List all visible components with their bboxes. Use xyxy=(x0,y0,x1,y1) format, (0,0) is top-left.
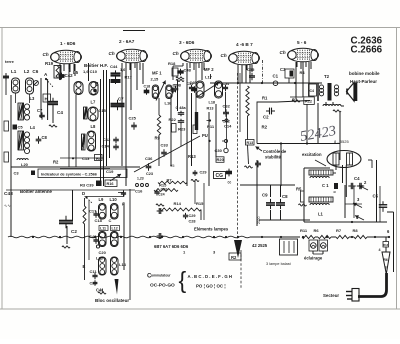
capacitor antenna input xyxy=(3,74,9,81)
label C19 xyxy=(106,169,114,174)
svg-text:C28: C28 xyxy=(189,220,196,224)
svg-text:terre: terre xyxy=(5,59,15,64)
svg-text:R9: R9 xyxy=(155,136,161,141)
capacitor C38 xyxy=(173,83,182,93)
svg-text:MF 1: MF 1 xyxy=(152,71,162,76)
wire AVC return xyxy=(6,189,135,191)
svg-text:R4: R4 xyxy=(300,70,306,75)
svg-text:L17: L17 xyxy=(205,75,213,80)
svg-text:L14: L14 xyxy=(119,262,127,267)
potentiometer mains dropper xyxy=(382,252,390,274)
svg-text:C6: C6 xyxy=(32,69,38,74)
capacitor C4 big xyxy=(48,98,63,127)
label elements lampes xyxy=(194,227,229,232)
resistor R18 box xyxy=(383,242,389,248)
label Boitier HF xyxy=(84,63,108,68)
svg-text:bobine mobile: bobine mobile xyxy=(349,71,380,76)
labels R11 C14 xyxy=(207,123,232,129)
svg-text:éclairage: éclairage xyxy=(304,256,323,261)
wire electrolytic leads xyxy=(240,185,310,220)
lamp dial 2 xyxy=(319,240,328,251)
svg-text:L9: L9 xyxy=(99,197,105,202)
capacitor C11 xyxy=(83,264,98,279)
capacitor C25 xyxy=(129,116,137,130)
wire filament bus xyxy=(8,236,250,238)
label boitier antenne xyxy=(4,189,53,197)
wire coil common xyxy=(60,157,104,159)
resistor R9 xyxy=(155,115,161,166)
svg-text:L10: L10 xyxy=(110,197,118,202)
label terre xyxy=(5,59,15,64)
capacitor C34 xyxy=(223,82,230,112)
capacitor C48b xyxy=(177,68,191,76)
svg-text:C18: C18 xyxy=(95,218,103,223)
capacitor C26b xyxy=(171,84,179,94)
capacitor C26 xyxy=(154,188,167,196)
choke L1 field xyxy=(309,197,333,217)
svg-text:3 lampe balast: 3 lampe balast xyxy=(266,262,292,266)
capacitor CG boxed xyxy=(214,172,226,180)
capacitor C3 left xyxy=(14,171,36,176)
svg-text:L12: L12 xyxy=(112,227,118,231)
inductor L5 xyxy=(74,82,83,168)
label Haut-Parleur xyxy=(349,71,380,84)
choke CH1 filter xyxy=(309,170,333,188)
svg-text:C7: C7 xyxy=(37,108,43,113)
label PU xyxy=(202,133,210,142)
coil speaker field winding xyxy=(323,105,341,106)
wire psu right rail xyxy=(368,160,380,222)
capacitor C48a xyxy=(176,106,187,124)
inductor L1 xyxy=(12,78,20,93)
wire heater leads tube V2 6A7 xyxy=(126,63,140,70)
capacitor C5 block xyxy=(13,125,24,130)
switch contact S2 xyxy=(208,140,227,143)
lamp dial 1 xyxy=(309,240,318,251)
label switch sections ABCDEFGH xyxy=(188,274,232,279)
capacitor C27 dark xyxy=(226,169,232,185)
wire tube V3 leads xyxy=(173,63,202,80)
capacitor C36 xyxy=(145,156,153,171)
wire oscillator frame xyxy=(85,189,131,300)
svg-text:L11: L11 xyxy=(100,227,106,231)
wire grid leads xyxy=(41,78,48,120)
svg-text:L2: L2 xyxy=(24,69,30,74)
svg-text:R2: R2 xyxy=(231,255,237,260)
divider dash-dot grid line xyxy=(262,60,264,83)
svg-text:C 1: C 1 xyxy=(322,183,329,188)
terminal 6 xyxy=(387,229,390,234)
svg-text:C2: C2 xyxy=(71,229,77,234)
resistor R20 xyxy=(216,157,225,163)
capacitor C8 xyxy=(276,194,288,209)
wire mains cable xyxy=(358,273,387,297)
wire heater leads tube V3 6D6 xyxy=(190,63,204,70)
resistor R19 xyxy=(45,61,61,80)
capacitor C41 pointer xyxy=(96,279,119,295)
resistor R5 xyxy=(296,187,307,207)
switch contact 1 xyxy=(355,215,364,220)
node B xyxy=(95,82,99,88)
svg-text:R1: R1 xyxy=(262,96,268,101)
wire RF bundle xyxy=(101,70,110,186)
svg-text:PU: PU xyxy=(202,133,208,138)
label indicateur de syntonie xyxy=(38,169,127,178)
wire osc top xyxy=(118,193,124,197)
label 8-3525 xyxy=(334,139,349,144)
svg-text:Ch: Ch xyxy=(280,50,286,55)
tube V5 42 xyxy=(280,40,319,62)
svg-text:R11: R11 xyxy=(207,124,215,129)
svg-text:R13: R13 xyxy=(207,107,214,111)
svg-text:C15: C15 xyxy=(99,108,107,113)
node D xyxy=(82,191,92,203)
label C20 xyxy=(99,250,107,255)
wire MF2 bundle xyxy=(187,63,196,186)
transformer L11 L12 xyxy=(99,232,119,247)
label C13 resistor R4 xyxy=(72,155,102,162)
svg-text:R3 C39: R3 C39 xyxy=(80,183,94,188)
switch contact osc xyxy=(96,245,99,248)
capacitor C42 xyxy=(59,73,74,80)
svg-text:L3: L3 xyxy=(30,96,36,101)
tube ballast xyxy=(280,239,298,255)
labels tube heaters xyxy=(154,244,216,255)
node bus end xyxy=(388,236,390,238)
svg-text:C48: C48 xyxy=(184,68,192,73)
svg-text:R8: R8 xyxy=(353,228,359,233)
label MF2 xyxy=(204,67,214,80)
capacitor osc b xyxy=(157,233,164,239)
svg-text:C9: C9 xyxy=(262,193,268,198)
wire tube V5 leads xyxy=(296,62,309,96)
svg-text:excitation: excitation xyxy=(302,152,322,157)
resistor R24 line xyxy=(154,189,178,197)
wire psu to mains xyxy=(387,212,394,272)
inductor L2 xyxy=(26,78,34,94)
capacitor C18 dark xyxy=(144,85,151,95)
capacitor C9 xyxy=(262,193,275,210)
inductor L18 core xyxy=(195,112,198,130)
label R15 xyxy=(159,183,167,188)
wire L16 C48a leads xyxy=(171,80,181,166)
wire heater leads tube V4 6B7 xyxy=(238,65,252,72)
label PO GO OC xyxy=(196,284,226,289)
svg-text:2000: 2000 xyxy=(257,216,261,224)
svg-text:R12: R12 xyxy=(305,100,312,104)
wire heater leads tube V1 6D6 xyxy=(60,64,74,71)
wire tube V2 leads xyxy=(122,63,143,186)
inductor L7 xyxy=(84,100,99,122)
svg-text:MF 2: MF 2 xyxy=(204,67,214,72)
svg-text:R19: R19 xyxy=(45,61,54,66)
svg-text:40: 40 xyxy=(333,190,337,194)
svg-text:L8: L8 xyxy=(91,124,97,129)
svg-text:D: D xyxy=(82,191,85,196)
wire plate supply bus xyxy=(210,82,322,84)
ground antenna xyxy=(4,203,11,208)
svg-text:C7: C7 xyxy=(118,97,124,102)
svg-text:C48: C48 xyxy=(4,191,13,197)
node H xyxy=(43,94,51,102)
capacitor C17b dark xyxy=(111,78,121,84)
svg-text:C.2666: C.2666 xyxy=(351,45,383,56)
svg-text:R22: R22 xyxy=(169,117,177,122)
svg-text:C13: C13 xyxy=(82,156,90,161)
svg-text:1,6 C10: 1,6 C10 xyxy=(83,69,98,74)
svg-text:L20: L20 xyxy=(21,162,29,167)
svg-text:8 - 3525: 8 - 3525 xyxy=(334,139,349,144)
svg-text:C29: C29 xyxy=(200,171,207,175)
svg-text:4: 4 xyxy=(379,248,381,252)
svg-text:C20: C20 xyxy=(99,250,107,255)
capacitor C21 xyxy=(90,280,98,286)
wire output stage xyxy=(290,83,303,97)
label OC-PO-GO xyxy=(150,283,175,289)
labels L11 L12 boxed xyxy=(99,226,120,231)
resistor R21 line xyxy=(158,178,199,205)
svg-text:C14: C14 xyxy=(224,123,232,128)
trimmer C1 xyxy=(273,74,279,86)
label commutateur xyxy=(147,273,171,280)
svg-text:2,15: 2,15 xyxy=(151,77,160,82)
svg-text:1 - 6D6: 1 - 6D6 xyxy=(60,41,76,46)
svg-text:R16: R16 xyxy=(107,182,114,186)
wire psu left rail xyxy=(304,168,330,222)
label 95 xyxy=(170,163,175,168)
svg-text:L1: L1 xyxy=(318,212,324,217)
svg-text:{: { xyxy=(179,267,187,293)
capacitor C29 xyxy=(183,213,196,224)
svg-text:C‌4: C‌4 xyxy=(57,110,63,115)
svg-text:1,23: 1,23 xyxy=(137,177,144,181)
svg-text:E: E xyxy=(83,264,86,269)
svg-text:66: 66 xyxy=(228,181,232,185)
svg-text:R20: R20 xyxy=(217,157,225,162)
transformer L9 L10 xyxy=(99,204,119,220)
capacitor C2 xyxy=(59,190,77,248)
terminal 4 xyxy=(379,248,381,252)
potentiometer R2 xyxy=(229,240,242,260)
svg-text:Contrôle de: Contrôle de xyxy=(263,149,287,154)
capacitor C43 xyxy=(89,234,99,244)
label excitation xyxy=(302,152,326,166)
svg-text:R15: R15 xyxy=(196,201,204,206)
capacitor C7 big xyxy=(111,97,125,111)
svg-text:R23: R23 xyxy=(178,127,186,132)
labels L5 C10 xyxy=(73,69,98,75)
wire psu bottom bus xyxy=(304,221,387,223)
svg-text:C32: C32 xyxy=(223,104,231,109)
svg-text:ommutateur: ommutateur xyxy=(151,274,171,278)
wire dropper leads xyxy=(385,237,387,252)
svg-text:R17: R17 xyxy=(125,75,133,80)
tube V4 6B7 xyxy=(221,42,260,65)
inductor L4 xyxy=(18,125,36,154)
ground MF1 xyxy=(176,80,184,82)
ground output xyxy=(292,97,300,102)
svg-text:R14: R14 xyxy=(174,201,182,206)
capacitor C5 xyxy=(373,194,388,213)
tube V2 6A7 xyxy=(109,39,148,63)
wire rectifier cathode xyxy=(333,165,346,197)
svg-text:C4: C4 xyxy=(354,176,360,181)
capacitor C7 xyxy=(37,108,45,120)
resistor R18 xyxy=(168,61,184,79)
transformer L13 L14 xyxy=(99,257,119,275)
resistor left rail xyxy=(4,152,9,162)
svg-text:C33: C33 xyxy=(161,143,169,148)
svg-text:R6: R6 xyxy=(384,258,388,262)
wire cathode common xyxy=(60,168,110,170)
switch contact S1 xyxy=(207,119,229,122)
capacitor osc a xyxy=(157,208,164,214)
svg-text:4 -6 B 7: 4 -6 B 7 xyxy=(236,42,253,47)
svg-text:T2: T2 xyxy=(324,74,330,79)
svg-text:R18: R18 xyxy=(168,61,176,66)
svg-text:PO ¦ GO ¦ OC ¦: PO ¦ GO ¦ OC ¦ xyxy=(196,284,226,289)
labels L1 L2 C6 A xyxy=(11,69,48,77)
divider dashed line xyxy=(239,73,241,132)
svg-text:L1: L1 xyxy=(11,69,17,74)
svg-text:3 - 6D6: 3 - 6D6 xyxy=(179,40,195,45)
inductor L3 xyxy=(18,96,35,120)
svg-text:2 - 6A7: 2 - 6A7 xyxy=(119,39,135,44)
svg-text:C29: C29 xyxy=(189,214,196,218)
svg-text:Bloc oscillateur: Bloc oscillateur xyxy=(95,298,129,303)
labels R3 C39 xyxy=(80,181,102,188)
svg-text:Secteur: Secteur xyxy=(323,293,339,298)
resistor R22 xyxy=(169,117,177,132)
capacitor C17 xyxy=(89,209,99,218)
switch contacts row xyxy=(136,177,149,187)
resistor R14 R15 row xyxy=(156,201,204,220)
resistor R12 boxed xyxy=(304,97,315,105)
ground oscillator xyxy=(98,289,106,294)
svg-text:Eléments lampes: Eléments lampes xyxy=(194,227,229,232)
svg-text:OC-PO-GO: OC-PO-GO xyxy=(150,283,175,289)
svg-text:5 - 6: 5 - 6 xyxy=(297,40,307,45)
svg-text:Ch: Ch xyxy=(173,51,179,56)
wire bus to T2 xyxy=(317,83,319,101)
wire switch lead down xyxy=(203,183,205,220)
label 2000 xyxy=(257,216,261,224)
svg-text:C23: C23 xyxy=(146,172,153,176)
svg-text:C1: C1 xyxy=(273,74,279,79)
svg-text:CG: CG xyxy=(216,173,224,179)
svg-text:C26: C26 xyxy=(161,188,168,192)
wire tube V1 leads xyxy=(60,64,75,76)
capacitor C12 xyxy=(103,137,119,144)
svg-text:C5: C5 xyxy=(373,194,379,199)
svg-text:C11: C11 xyxy=(90,269,98,274)
svg-text:A . B C . D . E . F . G H: A . B C . D . E . F . G H xyxy=(188,274,232,279)
svg-text:L4: L4 xyxy=(30,125,36,130)
plug secteur xyxy=(352,289,359,302)
svg-text:C35: C35 xyxy=(247,67,255,72)
svg-text:R7: R7 xyxy=(336,228,342,233)
svg-text:C18: C18 xyxy=(144,85,151,89)
resistor left rail 2 xyxy=(4,121,9,131)
svg-text:C: C xyxy=(109,218,112,223)
capacitor C44 xyxy=(110,64,121,79)
wire MF1 secondary xyxy=(158,98,160,115)
wire R12 to bottom xyxy=(280,104,308,145)
svg-text:R2: R2 xyxy=(262,125,268,130)
transformer MF2 xyxy=(196,81,223,98)
label bloc oscillateur xyxy=(95,298,129,303)
pointer arrow xyxy=(110,174,121,181)
wire left rail xyxy=(6,73,11,237)
capacitor C35 xyxy=(247,67,255,80)
svg-text:C25: C25 xyxy=(129,116,137,121)
inductor L8 xyxy=(82,124,97,151)
capacitor C7c xyxy=(255,161,261,168)
switch contact 2 xyxy=(359,180,368,190)
svg-text:C5: C5 xyxy=(18,125,24,130)
capacitor C33 xyxy=(161,143,169,157)
transformer T2 output xyxy=(319,74,338,101)
switch contact 3 xyxy=(353,197,362,208)
capacitor C31 xyxy=(187,82,195,91)
capacitor C30 xyxy=(215,148,229,153)
wire pointer R13 xyxy=(134,136,200,172)
wire AVC line R2 xyxy=(11,160,140,168)
svg-text:C2: C2 xyxy=(263,115,269,120)
wire lamps xyxy=(313,251,323,254)
svg-text:L7: L7 xyxy=(91,100,97,105)
svg-text:3: 3 xyxy=(385,266,387,270)
svg-text:6B7 6A7 6D6 6D6: 6B7 6A7 6D6 6D6 xyxy=(154,244,189,249)
label C23 xyxy=(146,172,153,176)
labels R11 R6 R7 R8 xyxy=(300,228,358,233)
capacitor C4 box xyxy=(309,84,317,96)
capacitor C46 xyxy=(190,81,198,93)
svg-text:Ch: Ch xyxy=(221,53,227,58)
wire contact rails xyxy=(345,185,362,218)
capacitor C3 xyxy=(280,67,294,83)
label secteur xyxy=(323,293,339,298)
svg-text:C16: C16 xyxy=(135,189,143,194)
labels R1 R3 xyxy=(262,96,298,103)
svg-text:C8: C8 xyxy=(42,135,48,140)
inductor L20 xyxy=(17,159,29,167)
overline above tube V2 label xyxy=(123,30,145,32)
inductor L6 xyxy=(89,82,98,96)
label controle de stabilite xyxy=(256,147,287,160)
page border frame xyxy=(0,27,400,29)
wire to psu xyxy=(257,144,340,227)
tube V3 6D6 xyxy=(173,40,212,63)
svg-text:Ch: Ch xyxy=(109,51,115,56)
label R17 xyxy=(120,68,133,80)
svg-text:R18: R18 xyxy=(383,243,388,247)
capacitor C29b xyxy=(193,170,207,176)
labels L13 L14 xyxy=(96,256,127,268)
wire heater leads tube V5 42 xyxy=(297,62,311,69)
capacitor C4 xyxy=(333,176,364,194)
capacitor C32 xyxy=(223,104,231,117)
svg-text:Ch: Ch xyxy=(43,52,49,57)
capacitor C8b xyxy=(36,135,48,144)
svg-text:R6: R6 xyxy=(314,228,320,233)
resistor R23 xyxy=(178,125,197,134)
svg-text:42 2525: 42 2525 xyxy=(252,243,268,248)
label lampe ballast xyxy=(266,262,292,266)
label MF1 xyxy=(151,71,163,82)
wire tube V1 plate xyxy=(69,63,89,167)
wire switch leads2 xyxy=(209,104,227,186)
